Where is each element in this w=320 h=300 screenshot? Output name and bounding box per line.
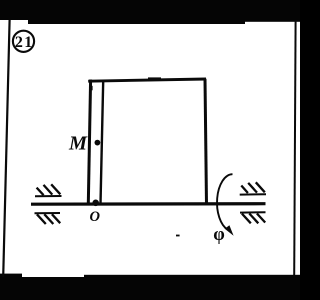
svg-text:21: 21 <box>15 34 34 51</box>
left edge scan blob <box>90 86 93 91</box>
right support upper hatch strokes <box>241 182 264 193</box>
left frame border line <box>3 20 9 277</box>
rotation arrow arc phi <box>217 174 232 229</box>
left support lower hatch strokes <box>37 214 60 224</box>
left support lower hatch base line <box>35 212 61 214</box>
plate right edge <box>205 79 207 205</box>
right support lower hatch base line <box>240 211 266 213</box>
bottom bar upper fringe <box>84 275 300 278</box>
top bar right fringe <box>245 20 300 22</box>
left support upper hatch base line <box>35 195 62 197</box>
axis rod right line <box>101 81 104 204</box>
point O dot <box>92 200 99 207</box>
right frame border line <box>294 20 295 275</box>
plate top edge <box>88 79 206 81</box>
svg-text:M: M <box>68 133 88 155</box>
stray ink speck <box>176 235 180 237</box>
ground line (horizontal axis) <box>31 202 266 206</box>
left support upper hatch strokes <box>37 184 61 195</box>
bottom-left bar fragment <box>0 274 22 277</box>
top bar lower fringe line <box>28 20 245 24</box>
svg-text:O: O <box>90 209 101 225</box>
top edge scan tick <box>148 77 161 80</box>
figure number badge circle 21 <box>13 31 34 52</box>
bottom black bar <box>0 277 300 300</box>
right support lower hatch strokes <box>242 214 265 224</box>
top black bar <box>0 0 300 20</box>
rotation arrowhead <box>225 225 234 236</box>
axis rod left line (plate left edge) <box>88 80 90 205</box>
svg-text:φ: φ <box>213 225 225 245</box>
point M dot <box>95 140 101 146</box>
right support upper hatch base line <box>240 193 266 195</box>
